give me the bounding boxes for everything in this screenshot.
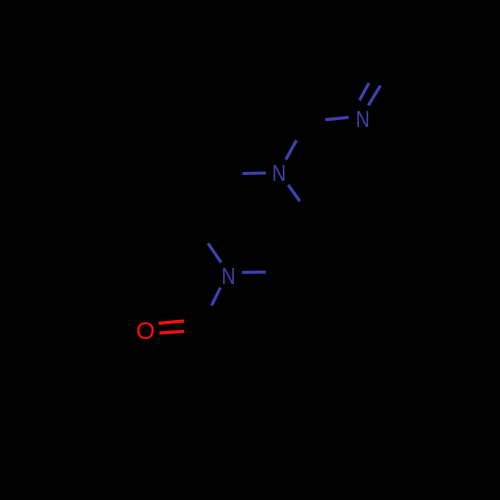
- bond N1-C2' pyridine attachment blue half: [286, 140, 297, 159]
- svg-text:O: O: [136, 318, 155, 345]
- bond Npyr=C6' pyridine double main line blue half: [368, 86, 380, 106]
- bond N4-C(=O) amide blue half: [212, 288, 221, 306]
- bond Npyr-C2' pyridine blue half: [325, 117, 348, 119]
- bond N4-C3 piperazine blue half: [242, 271, 266, 274]
- bond N1-C2 piperazine blue half: [288, 185, 300, 201]
- svg-text:N: N: [356, 106, 370, 132]
- bond C=O double (carbonyl) red half, upper line: [159, 321, 184, 323]
- bond Npyr=C6' pyridine double inner line blue half: [360, 83, 369, 100]
- bond N4-C5 piperazine blue half: [208, 243, 221, 262]
- svg-text:N: N: [222, 263, 236, 289]
- bond N1-C6 piperazine blue half: [243, 171, 267, 175]
- svg-text:N: N: [272, 160, 286, 186]
- bond C=O double (carbonyl) red half, lower line: [159, 331, 184, 333]
